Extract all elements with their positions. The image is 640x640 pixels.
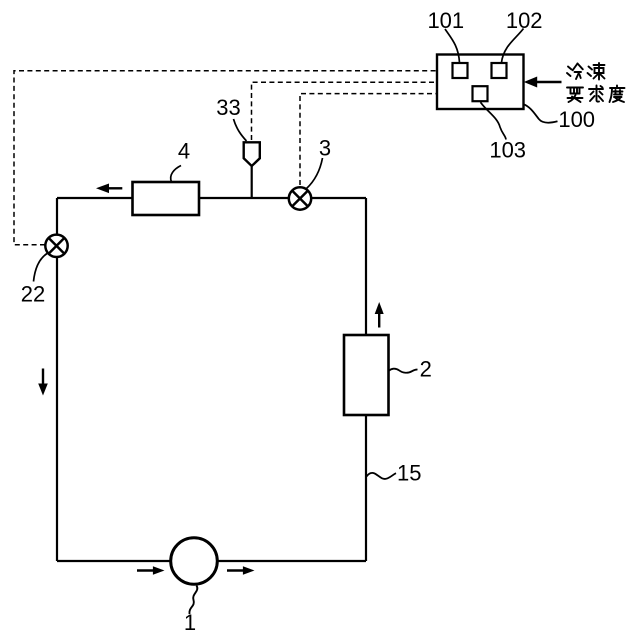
svg-text:3: 3	[319, 136, 331, 161]
flow arrow right (bottom pipe, right of compressor)	[227, 566, 255, 574]
leader for label 101	[445, 29, 460, 63]
svg-text:15: 15	[397, 461, 421, 486]
glyph 冷	[567, 64, 583, 80]
output port 103	[473, 86, 488, 101]
glyph 度	[610, 86, 625, 103]
sensor 33 (funnel)	[244, 142, 260, 166]
svg-text:22: 22	[21, 282, 45, 307]
wire: right pipe 15	[365, 198, 367, 561]
wire: left pipe	[56, 198, 58, 561]
svg-text:4: 4	[178, 139, 190, 164]
flow arrow up (right pipe)	[375, 302, 384, 328]
svg-text:100: 100	[558, 107, 595, 132]
glyph 凍	[588, 63, 605, 80]
wire: sensor 33 stem	[251, 164, 253, 198]
compressor 1	[171, 538, 218, 585]
leader for label 102	[502, 29, 524, 63]
svg-text:102: 102	[506, 8, 543, 33]
leader for label 15	[367, 473, 397, 479]
valve 3	[289, 187, 311, 209]
svg-text:103: 103	[489, 138, 526, 163]
heat exchanger 4	[133, 182, 200, 215]
wire: bottom pipe	[57, 560, 366, 562]
valve 22	[45, 235, 67, 257]
leader for label 33	[234, 119, 247, 141]
glyph 要	[567, 88, 583, 103]
controller 100	[437, 55, 524, 110]
svg-text:1: 1	[184, 610, 196, 635]
wire: top pipe	[57, 197, 366, 199]
input port 102	[492, 63, 507, 78]
svg-text:2: 2	[420, 357, 432, 382]
text 冷凍要求度 (hand-drawn glyphs)	[567, 63, 625, 102]
leader for label 1	[189, 586, 197, 615]
leader for label 2	[389, 369, 418, 373]
glyph 求	[589, 86, 603, 102]
control line to sensor 33 (dashed)	[252, 82, 438, 140]
flow arrow down (left pipe)	[38, 369, 48, 396]
leader for label 22	[34, 254, 48, 282]
flow arrow right (bottom pipe, left of compressor)	[137, 566, 165, 574]
leader for label 100	[524, 104, 558, 123]
control line to valve 22 (dashed)	[14, 71, 437, 245]
leader for label 4	[171, 166, 181, 183]
leader for label 3	[307, 158, 323, 189]
input port 101	[453, 63, 468, 78]
svg-text:101: 101	[427, 8, 464, 33]
leader for label 103	[481, 102, 507, 139]
input arrow into controller 100	[524, 77, 562, 88]
control line to valve 3 (dashed)	[300, 94, 437, 185]
svg-text:33: 33	[216, 95, 240, 120]
flow arrow left (top pipe)	[96, 184, 122, 194]
heat exchanger 2	[344, 335, 389, 415]
